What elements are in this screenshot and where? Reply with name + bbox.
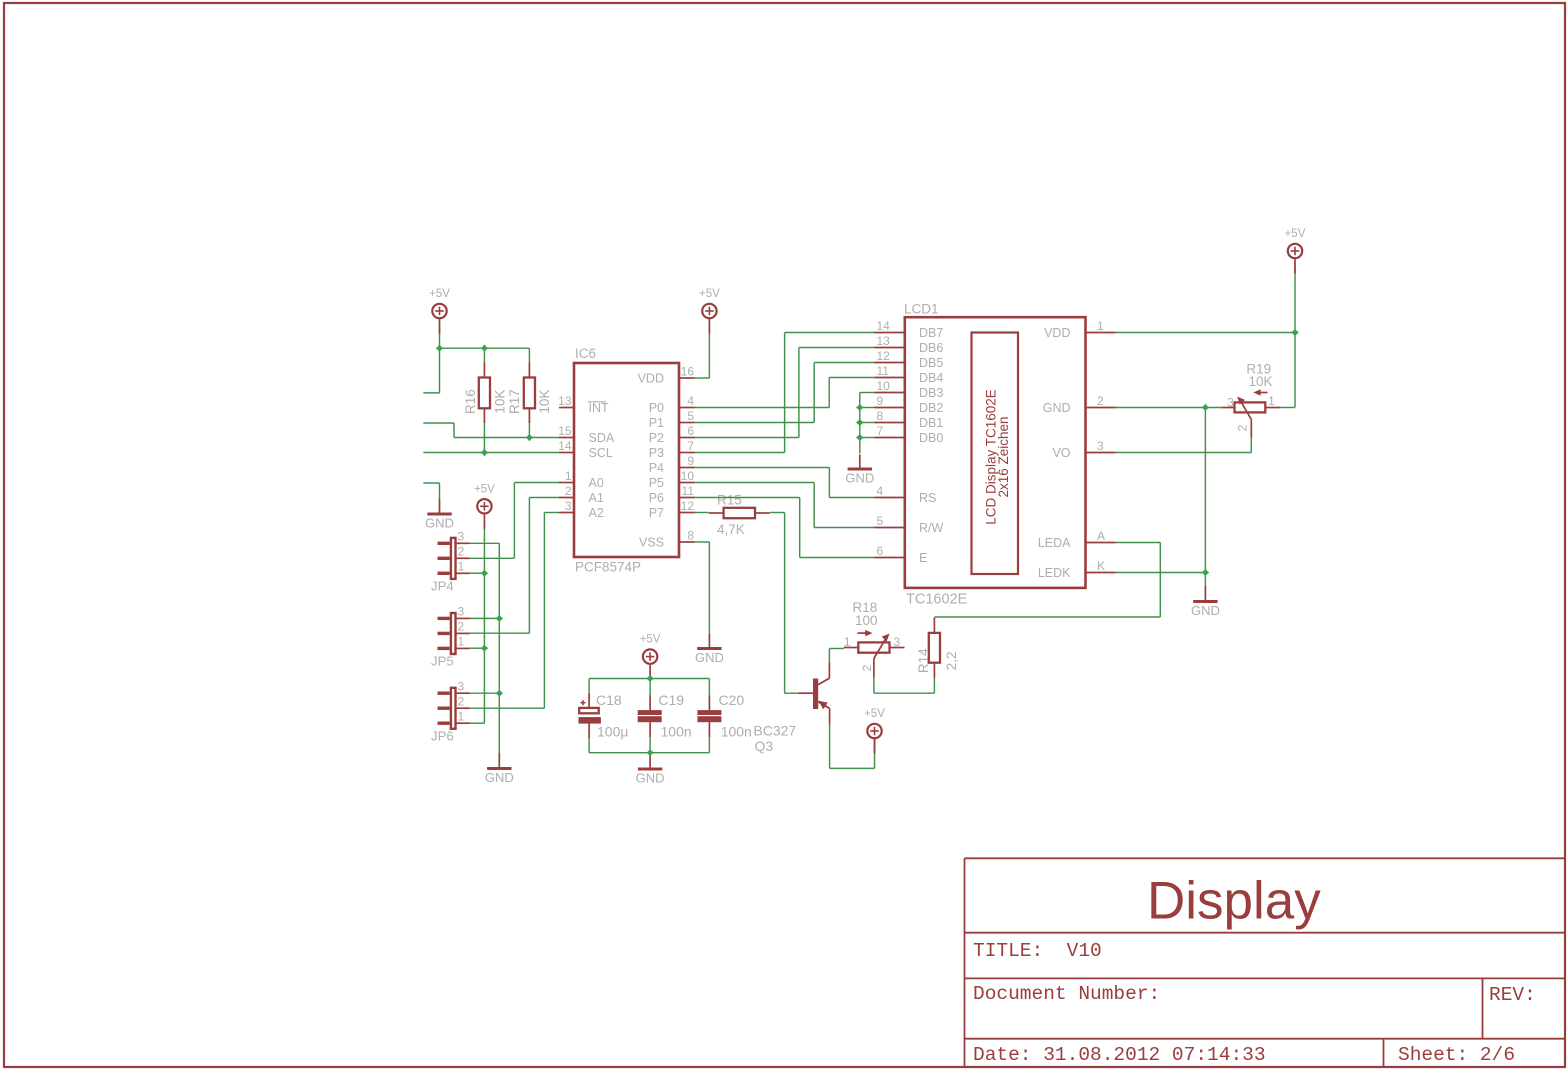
svg-text:JP6: JP6 <box>431 728 454 743</box>
svg-text:2: 2 <box>860 664 874 671</box>
svg-text:3: 3 <box>458 530 465 544</box>
svg-text:P5: P5 <box>649 476 664 490</box>
svg-text:2: 2 <box>458 694 465 708</box>
svg-text:A1: A1 <box>589 491 604 505</box>
svg-text:2: 2 <box>565 484 572 498</box>
svg-text:6: 6 <box>877 544 884 558</box>
svg-text:VSS: VSS <box>639 536 664 550</box>
svg-text:Q3: Q3 <box>755 738 774 754</box>
svg-text:1: 1 <box>1097 319 1104 333</box>
svg-text:+5V: +5V <box>640 634 661 646</box>
svg-text:TC1602E: TC1602E <box>906 592 968 608</box>
svg-text:P2: P2 <box>649 431 664 445</box>
svg-text:1: 1 <box>1268 394 1275 408</box>
svg-text:100n: 100n <box>661 723 692 739</box>
svg-text:4: 4 <box>687 394 694 408</box>
svg-text:12: 12 <box>877 349 891 363</box>
svg-text:100n: 100n <box>721 723 752 739</box>
svg-text:7: 7 <box>687 439 694 453</box>
svg-text:TITLE: V10: TITLE: V10 <box>973 940 1102 962</box>
svg-text:15: 15 <box>558 424 572 438</box>
svg-text:2: 2 <box>458 545 465 559</box>
svg-text:12: 12 <box>681 499 695 513</box>
svg-text:3: 3 <box>458 679 465 693</box>
svg-text:R15: R15 <box>717 493 742 508</box>
svg-text:+5V: +5V <box>474 483 495 495</box>
svg-text:E: E <box>919 551 927 565</box>
svg-text:R/W: R/W <box>919 521 944 535</box>
svg-text:LEDA: LEDA <box>1038 536 1071 550</box>
svg-text:2: 2 <box>1097 394 1104 408</box>
svg-text:10K: 10K <box>492 390 507 414</box>
svg-text:11: 11 <box>877 364 890 378</box>
svg-text:DB0: DB0 <box>919 431 943 445</box>
svg-text:VDD: VDD <box>1044 326 1070 340</box>
svg-text:13: 13 <box>877 334 891 348</box>
svg-text:9: 9 <box>877 394 884 408</box>
svg-text:2: 2 <box>458 620 465 634</box>
svg-text:10: 10 <box>877 379 891 393</box>
svg-text:100: 100 <box>855 613 878 628</box>
svg-text:14: 14 <box>877 319 891 333</box>
svg-text:DB3: DB3 <box>919 386 943 400</box>
svg-text:RS: RS <box>919 491 936 505</box>
svg-text:K: K <box>1097 559 1105 573</box>
svg-text:2x16 Zeichen: 2x16 Zeichen <box>996 416 1011 497</box>
svg-text:JP4: JP4 <box>431 579 454 594</box>
svg-text:100µ: 100µ <box>597 723 628 739</box>
svg-text:SCL: SCL <box>589 446 613 460</box>
svg-text:1: 1 <box>458 560 465 574</box>
svg-text:4: 4 <box>877 484 884 498</box>
svg-text:BC327: BC327 <box>753 722 796 738</box>
svg-text:DB2: DB2 <box>919 401 943 415</box>
svg-text:5: 5 <box>687 409 694 423</box>
svg-text:C19: C19 <box>658 692 684 708</box>
svg-text:8: 8 <box>877 409 884 423</box>
svg-text:R16: R16 <box>463 389 478 414</box>
svg-text:P1: P1 <box>649 416 664 430</box>
svg-text:11: 11 <box>682 484 695 498</box>
svg-text:JP5: JP5 <box>431 654 454 669</box>
svg-text:GND: GND <box>636 771 665 786</box>
svg-text:GND: GND <box>1043 401 1071 415</box>
svg-text:5: 5 <box>877 514 884 528</box>
svg-text:+5V: +5V <box>1285 228 1306 240</box>
svg-text:DB7: DB7 <box>919 326 943 340</box>
svg-text:C20: C20 <box>719 692 745 708</box>
svg-text:INT: INT <box>589 401 610 415</box>
svg-text:SDA: SDA <box>589 431 615 445</box>
svg-text:DB5: DB5 <box>919 356 943 370</box>
svg-text:+5V: +5V <box>429 288 450 300</box>
svg-text:3: 3 <box>458 605 465 619</box>
svg-text:A0: A0 <box>589 476 604 490</box>
svg-text:2,2: 2,2 <box>944 651 959 670</box>
svg-text:4,7K: 4,7K <box>717 522 745 537</box>
svg-text:DB6: DB6 <box>919 341 943 355</box>
svg-text:P0: P0 <box>649 401 664 415</box>
svg-text:REV:: REV: <box>1489 984 1536 1006</box>
svg-text:13: 13 <box>558 394 572 408</box>
svg-text:C18: C18 <box>596 692 622 708</box>
svg-text:LCD1: LCD1 <box>904 302 939 317</box>
svg-text:GND: GND <box>845 471 874 486</box>
svg-text:VDD: VDD <box>638 372 664 386</box>
svg-text:A2: A2 <box>589 506 604 520</box>
svg-text:GND: GND <box>1191 603 1220 618</box>
svg-text:GND: GND <box>695 650 724 665</box>
svg-text:8: 8 <box>687 529 694 543</box>
svg-text:LEDK: LEDK <box>1038 566 1071 580</box>
svg-text:3: 3 <box>565 499 572 513</box>
svg-text:3: 3 <box>1097 439 1104 453</box>
svg-text:7: 7 <box>877 424 884 438</box>
svg-text:P6: P6 <box>649 491 664 505</box>
svg-text:GND: GND <box>485 770 514 785</box>
svg-text:2: 2 <box>1236 425 1250 432</box>
svg-text:10: 10 <box>681 469 695 483</box>
svg-text:A: A <box>1097 529 1105 543</box>
svg-text:10K: 10K <box>1249 374 1273 389</box>
svg-text:Display: Display <box>1147 872 1321 931</box>
svg-text:1: 1 <box>458 709 465 723</box>
svg-text:Date: 31.08.2012 07:14:33: Date: 31.08.2012 07:14:33 <box>973 1044 1266 1066</box>
svg-text:+5V: +5V <box>699 288 720 300</box>
svg-text:GND: GND <box>425 516 454 531</box>
svg-text:DB1: DB1 <box>919 416 943 430</box>
svg-text:R14: R14 <box>916 648 931 673</box>
svg-text:Sheet: 2/6: Sheet: 2/6 <box>1398 1044 1515 1066</box>
svg-text:10K: 10K <box>537 390 552 414</box>
svg-text:16: 16 <box>681 365 695 379</box>
svg-text:1: 1 <box>458 635 465 649</box>
svg-text:PCF8574P: PCF8574P <box>575 560 641 575</box>
svg-text:+5V: +5V <box>864 708 885 720</box>
svg-text:VO: VO <box>1052 446 1070 460</box>
svg-text:Document Number:: Document Number: <box>973 983 1160 1005</box>
svg-text:6: 6 <box>687 424 694 438</box>
svg-text:P7: P7 <box>649 506 664 520</box>
svg-text:9: 9 <box>687 454 694 468</box>
svg-text:DB4: DB4 <box>919 371 943 385</box>
svg-text:P4: P4 <box>649 461 664 475</box>
svg-text:IC6: IC6 <box>575 346 596 361</box>
svg-text:R17: R17 <box>507 389 522 414</box>
svg-text:1: 1 <box>565 469 572 483</box>
svg-text:14: 14 <box>558 439 572 453</box>
svg-text:P3: P3 <box>649 446 664 460</box>
